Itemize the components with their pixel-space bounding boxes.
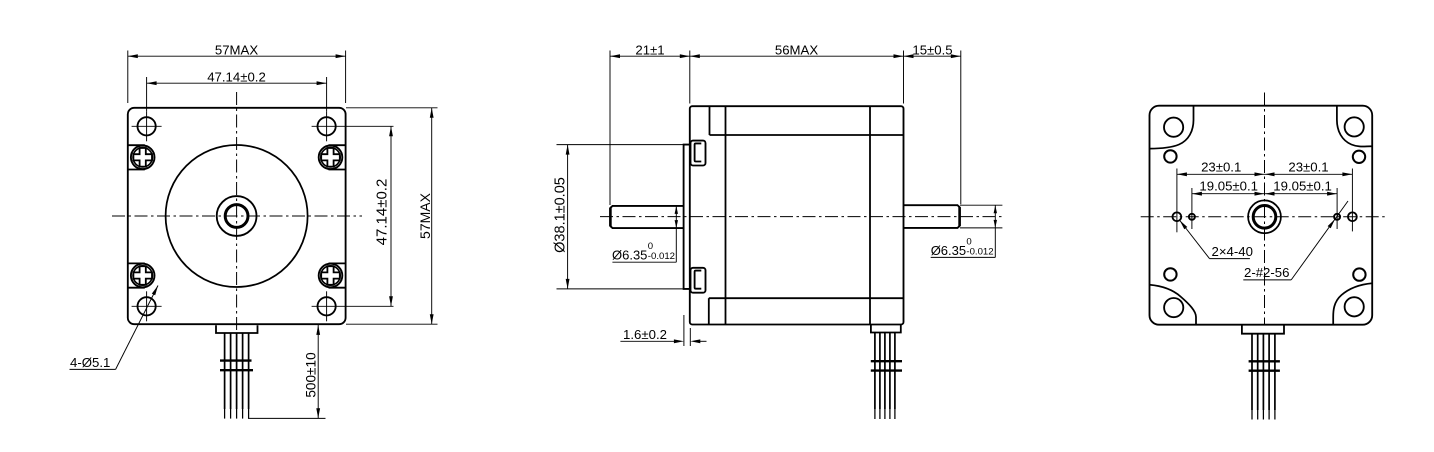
dimension 19.05 extension lines — [1191, 188, 1193, 229]
rear view 4-40 hole left — [1173, 212, 1182, 221]
dimension 1.6 extension lines — [683, 315, 685, 346]
dimension top line 21 56 15 — [610, 55, 961, 57]
svg-text:0: 0 — [966, 236, 971, 247]
rear view top-right cover screw hole — [1353, 151, 1365, 163]
front view bottom-right mounting hole — [318, 297, 336, 315]
rear view cable grommet — [1242, 325, 1284, 334]
dimension 38.1 line — [567, 145, 569, 289]
side view bottom screw head — [691, 268, 706, 293]
dimension 19.05 line — [1192, 193, 1337, 195]
rear view wire tips — [1251, 410, 1253, 420]
dimension 15 extension line right — [960, 51, 962, 205]
dimension 38.1 extension lines — [557, 144, 684, 146]
svg-text:0: 0 — [648, 241, 653, 252]
svg-text:57MAX: 57MAX — [417, 192, 433, 239]
leader 2-#2-56 arrow — [1328, 219, 1335, 228]
dimension top extension line mounting face — [689, 51, 691, 104]
front view horizontal centerline — [112, 215, 362, 217]
rear view shaft circle — [1253, 206, 1276, 229]
side view rear shaft — [904, 205, 960, 228]
rear view 2-56 hole right — [1334, 214, 1340, 220]
front view top-right hole center marks — [312, 125, 394, 127]
dimension 21 extension line left — [609, 51, 611, 206]
front view top-left screw — [131, 146, 155, 170]
rear view vertical centerline — [1264, 93, 1266, 325]
dimension 57MAX right line — [431, 108, 433, 324]
front view bottom-right screw — [319, 264, 343, 288]
rear view bottom-right corner scallop — [1333, 283, 1372, 325]
rear view body — [1150, 106, 1373, 325]
side view front end cap line bottom — [709, 297, 904, 299]
svg-text:Ø38.1±0.05: Ø38.1±0.05 — [553, 177, 569, 253]
dimension rear shaft diameter line — [994, 205, 996, 257]
side view body — [690, 106, 904, 324]
rear view wire band 1 — [1249, 360, 1280, 362]
svg-text:Ø6.35: Ø6.35 — [612, 248, 647, 263]
rear view bottom-right corner hole — [1345, 297, 1364, 316]
side view front cap step top — [709, 106, 711, 135]
svg-text:23±0.1: 23±0.1 — [1288, 159, 1328, 174]
leader 2x4-40 line — [1210, 258, 1250, 260]
front view pilot circle — [166, 145, 308, 287]
dimension 47.14 top extension lines — [146, 77, 148, 111]
svg-text:-0.012: -0.012 — [966, 247, 993, 258]
front view top-right screw tab — [329, 144, 346, 146]
svg-text:Ø6.35: Ø6.35 — [931, 243, 966, 258]
side view wire band 1 — [871, 360, 902, 362]
dimension 23 extension lines — [1176, 169, 1178, 233]
dimension 500 line — [317, 325, 319, 418]
side view front cap step bottom — [708, 298, 710, 324]
front view shaft circle — [225, 205, 248, 228]
side view wire band 2 — [871, 369, 902, 371]
rear view bottom-right cover screw hole — [1353, 268, 1365, 280]
side view front end cap line top — [710, 134, 904, 136]
front view wire tips — [224, 409, 226, 419]
dimension rear shaft diameter extension lines — [960, 204, 1002, 206]
rear view top-right corner hole — [1345, 117, 1364, 136]
dimension 47.14 right line — [390, 126, 392, 306]
front view bottom-left hole center marks — [132, 305, 162, 307]
dimension 23 line — [1177, 173, 1353, 175]
rear view top-left cover screw hole — [1164, 150, 1176, 162]
svg-text:23±0.1: 23±0.1 — [1201, 159, 1241, 174]
rear view lead wires — [1251, 334, 1253, 410]
svg-text:15±0.5: 15±0.5 — [912, 42, 952, 57]
front view wire band 2 — [220, 369, 253, 371]
front view top-right mounting hole — [318, 117, 336, 135]
svg-text:19.05±0.1: 19.05±0.1 — [1273, 179, 1332, 194]
dimension 57MAX top line — [128, 55, 346, 57]
side view pilot boss — [684, 145, 690, 289]
svg-text:21±1: 21±1 — [635, 42, 664, 57]
leader 4-diameter-5.1 line — [70, 368, 116, 370]
rear view wire band 2 — [1249, 370, 1280, 372]
rear view top-left corner scallop — [1150, 106, 1194, 149]
front view bottom-right screw tab — [329, 262, 346, 264]
front view body — [128, 108, 346, 324]
dimension 57MAX right extension lines — [346, 107, 438, 109]
rear view top-right corner scallop — [1337, 106, 1372, 147]
side view cable grommet — [871, 325, 901, 333]
svg-text:56MAX: 56MAX — [775, 42, 818, 57]
svg-text:2-#2-56: 2-#2-56 — [1244, 265, 1289, 280]
dimension 57MAX top extension lines — [127, 51, 129, 104]
front view top-left mounting hole — [138, 117, 156, 135]
svg-text:4-Ø5.1: 4-Ø5.1 — [70, 355, 110, 370]
rear view horizontal centerline — [1141, 216, 1385, 218]
dimension front shaft diameter underline — [612, 261, 676, 263]
svg-text:1.6±0.2: 1.6±0.2 — [623, 327, 667, 342]
front view top-right screw — [319, 146, 343, 170]
svg-text:47.14±0.2: 47.14±0.2 — [374, 179, 391, 246]
side view top screw head — [691, 141, 706, 166]
side view lead wires — [874, 333, 876, 410]
svg-text:19.05±0.1: 19.05±0.1 — [1199, 179, 1258, 194]
svg-text:2×4-40: 2×4-40 — [1212, 244, 1253, 259]
svg-text:-0.012: -0.012 — [648, 251, 675, 262]
dimension 500 bottom extension line — [248, 417, 326, 419]
leader 2-#2-56 line — [1243, 279, 1291, 281]
dimension 1.6 leader and arrows — [620, 340, 679, 342]
front view vertical centerline — [236, 92, 238, 342]
rear view bottom-left cover screw hole — [1164, 268, 1176, 280]
rear view top-left corner hole — [1164, 118, 1183, 137]
leader 4-diameter-5.1 arrow — [152, 286, 158, 296]
dimension top extension line rear face — [903, 51, 905, 104]
front view top-left hole center marks — [132, 125, 162, 127]
rear view 2-56 hole left — [1189, 214, 1195, 220]
leader 2x4-40 arrow — [1180, 220, 1188, 229]
dimension 47.14 top line — [147, 82, 327, 84]
front view lead wires — [224, 333, 226, 409]
side view front shaft — [610, 206, 684, 228]
dimension front shaft diameter line — [675, 206, 677, 262]
rear view bottom-left corner scallop — [1150, 285, 1197, 325]
front view shaft boss circle — [217, 196, 257, 236]
svg-text:47.14±0.2: 47.14±0.2 — [207, 69, 266, 84]
side view lamination line rear — [869, 106, 871, 324]
front view bottom-right hole center marks — [312, 305, 394, 307]
side view lamination line front — [725, 106, 727, 324]
front view cable grommet — [216, 325, 258, 333]
rear view bottom-left corner hole — [1164, 298, 1183, 317]
front view wire band 1 — [220, 359, 252, 361]
front view bottom-left mounting hole — [138, 297, 156, 315]
side view shaft centerline — [600, 216, 1002, 218]
front view bottom-left screw tab — [128, 262, 145, 264]
side view wire tips — [874, 409, 876, 419]
front view bottom-left screw — [131, 264, 155, 288]
front view top-left screw tab — [128, 144, 145, 146]
rear view shaft outer circle — [1248, 200, 1281, 233]
svg-text:57MAX: 57MAX — [215, 42, 258, 57]
rear view 4-40 hole right — [1348, 212, 1357, 221]
dimension rear shaft diameter underline — [931, 256, 996, 258]
svg-text:500±10: 500±10 — [303, 352, 318, 398]
